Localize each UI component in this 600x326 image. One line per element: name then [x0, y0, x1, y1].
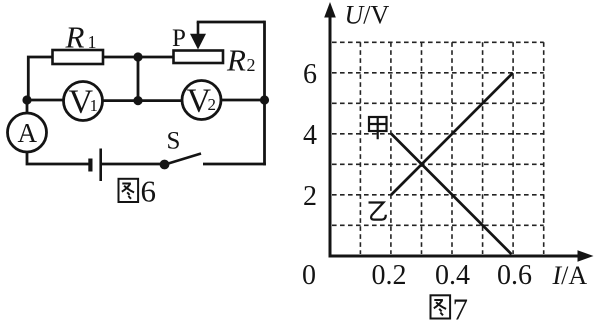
svg-text:U/V: U/V — [345, 1, 390, 30]
svg-text:0.6: 0.6 — [497, 260, 532, 291]
wire slider top to right rail — [197, 21, 265, 24]
node C junction dot — [133, 96, 142, 105]
label yi — [369, 203, 386, 220]
svg-text:2: 2 — [208, 95, 217, 114]
x-axis — [329, 255, 581, 258]
y-axis — [329, 16, 332, 257]
switch S pivot dot — [160, 160, 170, 170]
node D junction dot on right rail — [260, 95, 269, 104]
svg-text:I/A: I/A — [552, 261, 588, 290]
svg-text:R: R — [65, 19, 85, 54]
svg-text:A: A — [18, 118, 38, 148]
svg-text:0.2: 0.2 — [372, 260, 407, 291]
battery positive plate — [99, 149, 102, 182]
svg-text:1: 1 — [88, 32, 97, 52]
svg-text:P: P — [172, 25, 186, 52]
svg-text:4: 4 — [303, 120, 317, 151]
ammeter A — [8, 113, 47, 152]
svg-text:0: 0 — [302, 260, 316, 291]
svg-text:0.4: 0.4 — [435, 260, 470, 291]
wire V1 to V2 — [103, 99, 183, 102]
node B junction dot — [133, 52, 142, 61]
slider P arrow — [197, 22, 200, 36]
line yi ascending — [391, 73, 513, 195]
label jia — [369, 117, 387, 139]
wire V2 to node D — [221, 99, 265, 102]
node A junction dot — [22, 95, 31, 104]
wire node A to ammeter — [26, 100, 29, 113]
svg-text:2: 2 — [247, 55, 256, 75]
wire battery to switch — [101, 163, 161, 166]
voltmeter V1 — [64, 82, 103, 121]
grid vertical dashed lines — [360, 42, 543, 254]
svg-text:7: 7 — [453, 292, 469, 326]
battery negative plate — [88, 159, 92, 172]
switch lever — [165, 154, 201, 165]
wire right rail — [263, 21, 266, 166]
rheostat R2 body — [174, 51, 224, 64]
figure label 图7 — [431, 295, 451, 318]
wire switch to bottom-right corner — [203, 163, 266, 166]
voltmeter V2 — [182, 81, 221, 120]
resistor R1 — [53, 50, 104, 64]
svg-text:6: 6 — [303, 59, 317, 90]
svg-text:2: 2 — [303, 181, 317, 212]
wire top-left from left rail corner to R1 — [28, 57, 53, 100]
svg-text:1: 1 — [90, 96, 99, 115]
wire ammeter to bottom-left corner — [26, 152, 89, 164]
grid horizontal dashed lines — [332, 42, 544, 225]
svg-text:R: R — [226, 42, 246, 77]
line jia descending — [391, 134, 512, 255]
wire R1 right to node B — [103, 56, 138, 59]
wire middle vertical node B to node C — [137, 57, 140, 101]
svg-text:6: 6 — [141, 174, 157, 209]
svg-text:S: S — [167, 128, 181, 155]
wire node B to rheostat R2 — [138, 56, 174, 59]
figure label 图6 — [119, 179, 139, 202]
wire node A to V1 — [27, 99, 64, 102]
